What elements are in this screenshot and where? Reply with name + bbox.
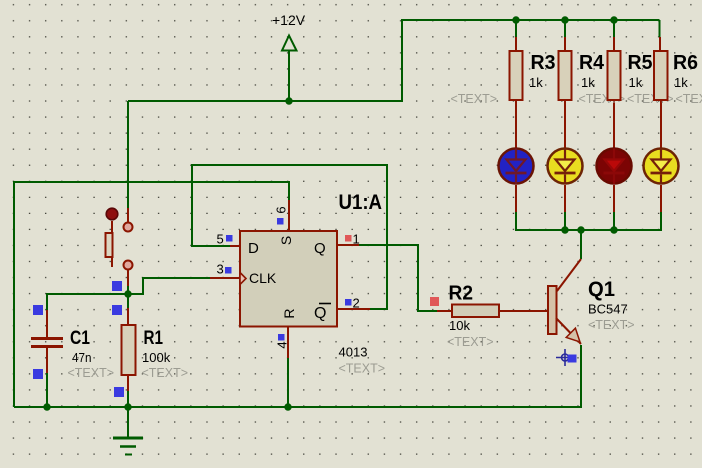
pin wire Qbar [337,308,370,310]
pin wire R6 top [659,37,661,51]
svg-text:Q: Q [314,240,326,257]
junction R3 top [512,16,519,23]
wire R1 bottom [127,391,129,407]
pin number 6 square [277,218,284,225]
wire LED D2 cathode [564,212,566,230]
pin number 1 square [345,235,352,242]
capacitor C1 [31,337,63,348]
pin wire R6 to D4 [660,100,662,148]
junction R5 top [610,16,617,23]
svg-text:R2: R2 [449,283,474,305]
resistor R3 [510,51,523,100]
svg-text:47n: 47n [72,350,92,365]
pin wire R2 right to base [499,310,548,312]
resistor R1 [122,325,136,375]
transistor Q1 collector line [557,259,581,291]
svg-text:<TEXT>: <TEXT> [588,318,635,332]
svg-text:U1:A: U1:A [339,191,383,214]
pin wire R4 top [564,37,566,51]
pin wire D2 bottom [564,185,566,212]
svg-text:R6: R6 [673,52,698,74]
svg-text:+12V: +12V [272,12,306,28]
svg-text:2: 2 [353,296,360,311]
pin wire R5 top [613,37,615,51]
op-amp style box U1:A 4013 [240,231,337,327]
svg-text:<TEXT>: <TEXT> [142,366,189,380]
pin number 3 square [225,267,232,274]
svg-text:R1: R1 [144,328,164,349]
node marker C1 bottom [33,369,43,379]
junction +12V rail [285,97,292,104]
svg-text:1k: 1k [674,75,688,90]
pin wire S [288,200,290,231]
resistor R5 [608,51,621,100]
svg-text:<TEXT>: <TEXT> [676,92,702,106]
wire LED D3 cathode [613,212,615,230]
pin wire button bottom [127,270,129,286]
wire +12V rail top [128,20,660,101]
pin wire CLK [210,277,240,279]
svg-text:BC547: BC547 [588,302,628,317]
transistor Q1 base bar [548,286,557,334]
svg-text:10k: 10k [449,318,470,333]
junction R4 top [561,16,568,23]
push button terminal bottom [124,261,133,270]
node marker R1 top [112,305,122,315]
junction C1 ground [43,403,50,410]
pin number 2 square [345,299,352,306]
svg-text:R: R [281,308,297,318]
LED D3 red [597,149,632,185]
wire pin4 to ground rail [287,358,289,407]
node marker button bottom [112,281,122,291]
pin wire R5 to D3 [613,100,615,148]
pin wire R2 left [437,310,452,312]
LED D4 yellow [644,149,679,185]
junction LED rail collector [577,226,584,233]
svg-text:S: S [278,236,294,245]
svg-text:3: 3 [217,262,224,277]
pin wire R3 to D1 [515,100,517,148]
svg-text:<TEXT>: <TEXT> [339,362,386,376]
svg-text:6: 6 [274,206,289,213]
svg-text:1k: 1k [529,75,543,90]
junction pin4 ground [284,403,291,410]
svg-text:R5: R5 [628,52,653,74]
node marker emitter crosshair [556,349,574,366]
pin number 5 square [226,235,233,242]
pin wire C1 top [46,310,48,337]
wire C1 bottom [46,373,48,407]
pin wire button top [127,208,129,222]
svg-text:R4: R4 [579,52,605,74]
power +12V symbol [282,36,297,51]
pin number 4 square [278,334,285,341]
resistor R2 [452,305,499,318]
ground symbol [113,407,143,455]
junction LED rail D3 [610,226,617,233]
svg-text:Q1: Q1 [588,278,615,301]
push button body [106,233,113,257]
push button terminal top [124,223,133,232]
wire rail to R5 [613,20,615,37]
wire S-pin loop left [14,182,289,407]
wire Q to R2 [359,245,437,311]
svg-text:1: 1 [353,232,360,247]
resistor R4 [559,51,572,100]
svg-text:CLK: CLK [249,270,277,286]
pin wire D [230,245,240,247]
pin wire R1 bottom [127,375,129,391]
junction LED rail D2 [561,226,568,233]
pin wire R pin4 [287,326,289,358]
pin wire R1 top [127,308,129,325]
wire rail to R3 [515,20,517,37]
svg-text:1k: 1k [629,75,643,90]
node marker emitter square [568,355,577,363]
pin wire R4 to D2 [564,100,566,148]
wire LED cathode rail [516,212,661,230]
wire CLK net [47,278,210,310]
pin wire D1 bottom [515,185,517,212]
svg-text:5: 5 [217,232,224,247]
LED D2 yellow [548,149,583,185]
CLK chevron [240,273,246,285]
push button stem [111,221,113,267]
pin wire D4 bottom [660,185,662,212]
transistor Q1 emitter line [556,318,581,344]
node marker R2 left [430,297,439,306]
node marker C1 top [33,305,43,315]
wire collector drop [580,230,582,259]
wire +12V stem [288,50,290,101]
svg-text:<TEXT>: <TEXT> [447,335,494,349]
wire rail to R6 [659,20,661,37]
svg-text:1k: 1k [581,75,595,90]
wire ground rail [14,345,581,407]
pin wire D3 bottom [613,185,615,212]
svg-text:<TEXT>: <TEXT> [68,366,115,380]
wire button top [127,101,129,208]
junction CLK node [124,290,131,297]
pin wire Q [337,244,359,246]
pin wire R3 top [515,37,517,51]
svg-text:4: 4 [275,341,290,348]
svg-text:Q: Q [314,305,326,322]
pin wire C1 bottom [46,348,48,373]
svg-text:<TEXT>: <TEXT> [451,92,498,106]
pin label Qbar [314,304,331,323]
wire button bottom to junction [127,286,129,308]
wire feedback Qbar to D [192,165,387,309]
transistor Q1 emitter arrow [566,328,580,342]
svg-text:100k: 100k [142,350,171,365]
node marker R1 bottom [114,387,124,397]
svg-text:D: D [248,240,259,257]
resistor R6 [654,51,668,100]
svg-text:C1: C1 [70,328,90,349]
wire rail to R4 [564,20,566,37]
junction R1 ground [124,403,131,410]
svg-text:4013: 4013 [339,345,368,360]
push button cap [106,208,118,220]
svg-text:R3: R3 [531,52,556,74]
LED D1 blue [499,149,534,185]
